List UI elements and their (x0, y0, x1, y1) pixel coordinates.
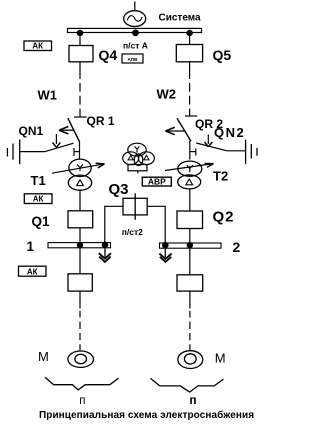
svg-text:Q1: Q1 (32, 214, 51, 229)
svg-text:Система: Система (159, 13, 202, 24)
wire: Q1 to bus 1 (79, 228, 81, 243)
svg-text:АК: АК (32, 42, 43, 51)
svg-text:Q2: Q2 (213, 209, 235, 226)
svg-text:АПВ: АПВ (128, 57, 139, 62)
svg-text:М: М (38, 349, 49, 364)
svg-text:п: п (189, 393, 196, 407)
wire: bus to Q5 (189, 33, 191, 45)
wire: T1 to Q1 (79, 190, 81, 211)
АК box 3 (19, 266, 47, 276)
node: junction dot left on bus (77, 30, 83, 36)
wire: bus 1 to lower breaker left (79, 248, 81, 274)
breaker Q2 (177, 211, 203, 229)
wire: QR2 to T2 (189, 141, 191, 160)
node: dot bus1 left (77, 242, 83, 248)
node: dot bus2 left (162, 242, 169, 249)
svg-text:QN2: QN2 (214, 125, 245, 140)
transformer T2 (165, 161, 214, 189)
breaker (lower right feeder) (177, 275, 203, 291)
feeder arrow (left bus) (99, 248, 111, 262)
АК box 1 (24, 41, 52, 51)
svg-text:Q3: Q3 (109, 181, 129, 198)
АВР box (142, 176, 171, 186)
transformer T1 (52, 159, 105, 190)
brace (right group) (151, 378, 224, 392)
svg-text:АК: АК (27, 267, 38, 276)
svg-text:W1: W1 (38, 87, 58, 102)
svg-text:T2: T2 (213, 169, 228, 184)
cable to motor right (dashed) (189, 291, 191, 350)
feeder arrow (right bus) (159, 249, 171, 262)
АК box 2 (24, 194, 52, 204)
motor M (right) (178, 351, 203, 369)
wire: bus to Q4 (79, 33, 81, 46)
wire: Q3 to bus 1 (105, 206, 123, 242)
earthing switch QN1 (20, 134, 80, 156)
voltage transformer (3-winding, station service) (123, 143, 155, 173)
bus 1 (section 1) (48, 243, 111, 248)
svg-text:QR 1: QR 1 (87, 114, 115, 128)
ground (left) (7, 140, 19, 165)
wire: Q2 to bus 2 (189, 229, 191, 244)
bus 2 (section 2) (160, 243, 222, 248)
svg-text:п: п (79, 395, 85, 407)
svg-text:М: М (215, 350, 226, 365)
breaker (lower left feeder) (68, 274, 92, 291)
svg-text:п/ст2: п/ст2 (122, 227, 143, 237)
wire: T2 to Q2 (189, 189, 191, 211)
disconnector QR2 (166, 116, 198, 141)
svg-text:Принцепиальная схема электросн: Принцепиальная схема электроснабжения (39, 409, 254, 421)
svg-text:Q4: Q4 (99, 47, 118, 63)
cable to motor left (dashed) (79, 291, 81, 350)
wire: bus 2 to lower breaker right (189, 249, 191, 275)
breaker Q3 (sectional) (123, 193, 147, 220)
breaker Q4 (69, 46, 93, 62)
wire: QR1 to T1 (79, 141, 81, 159)
node: dot bus2 right (187, 242, 193, 248)
svg-text:п/ст А: п/ст А (123, 41, 148, 51)
node: junction dot right on bus (186, 30, 192, 36)
earthing switch QN2 (190, 135, 246, 156)
svg-text:W2: W2 (157, 86, 177, 101)
svg-text:QN1: QN1 (19, 124, 44, 138)
motor M (left) (68, 351, 94, 367)
breaker Q1 (68, 211, 93, 228)
generator G (system source) (124, 2, 146, 27)
disconnector QR1 (59, 117, 87, 142)
svg-text:T1: T1 (31, 173, 46, 188)
bus п/ст А (68, 28, 202, 32)
cable W1 (dashed line) (79, 62, 81, 117)
ground (right) (246, 140, 257, 165)
node: dot bus1 right (102, 242, 109, 249)
svg-text:Q5: Q5 (213, 47, 232, 63)
node: junction dot center on bus (132, 29, 139, 36)
breaker Q5 (176, 45, 202, 62)
brace (left group) (45, 377, 119, 390)
svg-text:1: 1 (27, 239, 35, 254)
cable W2 (dashed line) (189, 62, 191, 116)
wire: Q3 to bus 2 (147, 206, 165, 243)
АПВ relay box (122, 54, 143, 63)
svg-text:АВР: АВР (148, 176, 166, 186)
svg-text:АК: АК (33, 195, 44, 204)
svg-text:2: 2 (233, 239, 241, 255)
